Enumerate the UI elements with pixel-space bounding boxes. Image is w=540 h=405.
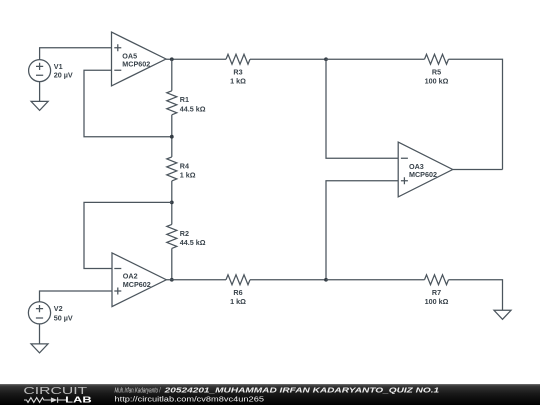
resistor R7 [425,275,449,285]
R2 value label [180,229,206,247]
svg-text:R4: R4 [180,161,189,170]
resistor R6 [226,275,250,285]
wire bottom junction to OA3 +in [326,181,398,280]
svg-text:44.5 kΩ: 44.5 kΩ [180,238,206,247]
resistor R1 [167,91,177,115]
svg-text:MCP602: MCP602 [409,170,437,179]
wire R3 to mid junction [250,58,326,60]
R5 value label [425,68,449,86]
svg-text:20 µV: 20 µV [54,71,73,80]
svg-text:R1: R1 [180,95,189,104]
R6 value label [230,288,246,306]
svg-text:Muh.Irfan.Kadaryanto /: Muh.Irfan.Kadaryanto / [115,387,162,394]
svg-text:R2: R2 [180,229,189,238]
wire OA5 -in feedback [84,70,172,136]
svg-text:1 kΩ: 1 kΩ [230,297,246,306]
svg-text:R3: R3 [233,68,242,77]
OA3 labels [409,162,437,179]
svg-text:MCP602: MCP602 [123,280,151,289]
svg-text:R7: R7 [432,288,441,297]
wire R2 to OA2 output junction [171,248,173,279]
OA2 labels [123,272,151,289]
wire R7 to right ground [449,280,503,311]
voltage source V2 [28,302,50,324]
R3 value label [230,68,246,86]
wire junction to R1 [171,59,173,91]
wire V1 to OA5 +in [40,48,112,60]
wire OA2 output to bottom rail [166,279,226,281]
wire R4 to node B [171,181,173,225]
svg-text:V2: V2 [54,304,63,313]
node mid top junction [324,57,328,61]
svg-text:LAB: LAB [65,395,92,404]
node B junction [170,201,174,205]
ground right [494,310,511,319]
resistor R5 [425,54,449,64]
svg-text:http://circuitlab.com/cv8m8vc4: http://circuitlab.com/cv8m8vc4un265 [115,396,265,403]
node junction OA2 out [170,278,174,282]
wire OA3 output [453,169,503,171]
R1 value label [180,95,206,113]
V1 value label [54,62,73,80]
svg-text:44.5 kΩ: 44.5 kΩ [180,105,206,114]
R4 value label [180,161,196,179]
wire mid junction to R5 [326,58,425,60]
OA5 labels [122,51,150,68]
ground under V2 [31,344,48,353]
svg-text:100 kΩ: 100 kΩ [425,76,449,85]
wire R5 to right feedback corner [449,59,503,169]
node A junction [170,135,174,139]
resistor R3 [226,54,250,64]
svg-text:1 kΩ: 1 kΩ [230,76,246,85]
svg-text:100 kΩ: 100 kΩ [425,297,449,306]
wire OA5 output to top rail [166,58,226,60]
ground under V1 [31,101,48,110]
svg-text:50 µV: 50 µV [54,314,73,323]
logo resistor glyph [24,398,51,403]
V2 value label [54,304,73,322]
node junction OA5 out [170,57,174,61]
wire V1 to ground [39,82,41,102]
resistor R4 [167,157,177,181]
svg-text:20524201_MUHAMMAD IRFAN KADARY: 20524201_MUHAMMAD IRFAN KADARYANTO_QUIZ … [163,387,439,394]
wire mid junction to R7 [326,279,425,281]
node mid bottom junction [324,278,328,282]
wire R1 to node A [171,115,173,157]
svg-text:R6: R6 [233,288,242,297]
wire V2 to OA2 +in [40,291,113,302]
wire R6 to bottom mid junction [250,279,326,281]
svg-text:1 kΩ: 1 kΩ [180,171,196,180]
wire top junction to OA3 -in [326,59,398,158]
voltage source V1 [29,60,51,82]
op-amp OA3 [398,142,453,197]
svg-text:MCP602: MCP602 [122,60,150,69]
wire V2 to ground [39,324,41,344]
R7 value label [425,288,449,306]
svg-text:R5: R5 [432,68,441,77]
op-amp OA2 [112,253,166,307]
wire OA2 -in feedback [84,202,172,268]
logo diode glyph [51,397,57,402]
op-amp OA5 [112,32,167,86]
resistor R2 [167,224,177,248]
